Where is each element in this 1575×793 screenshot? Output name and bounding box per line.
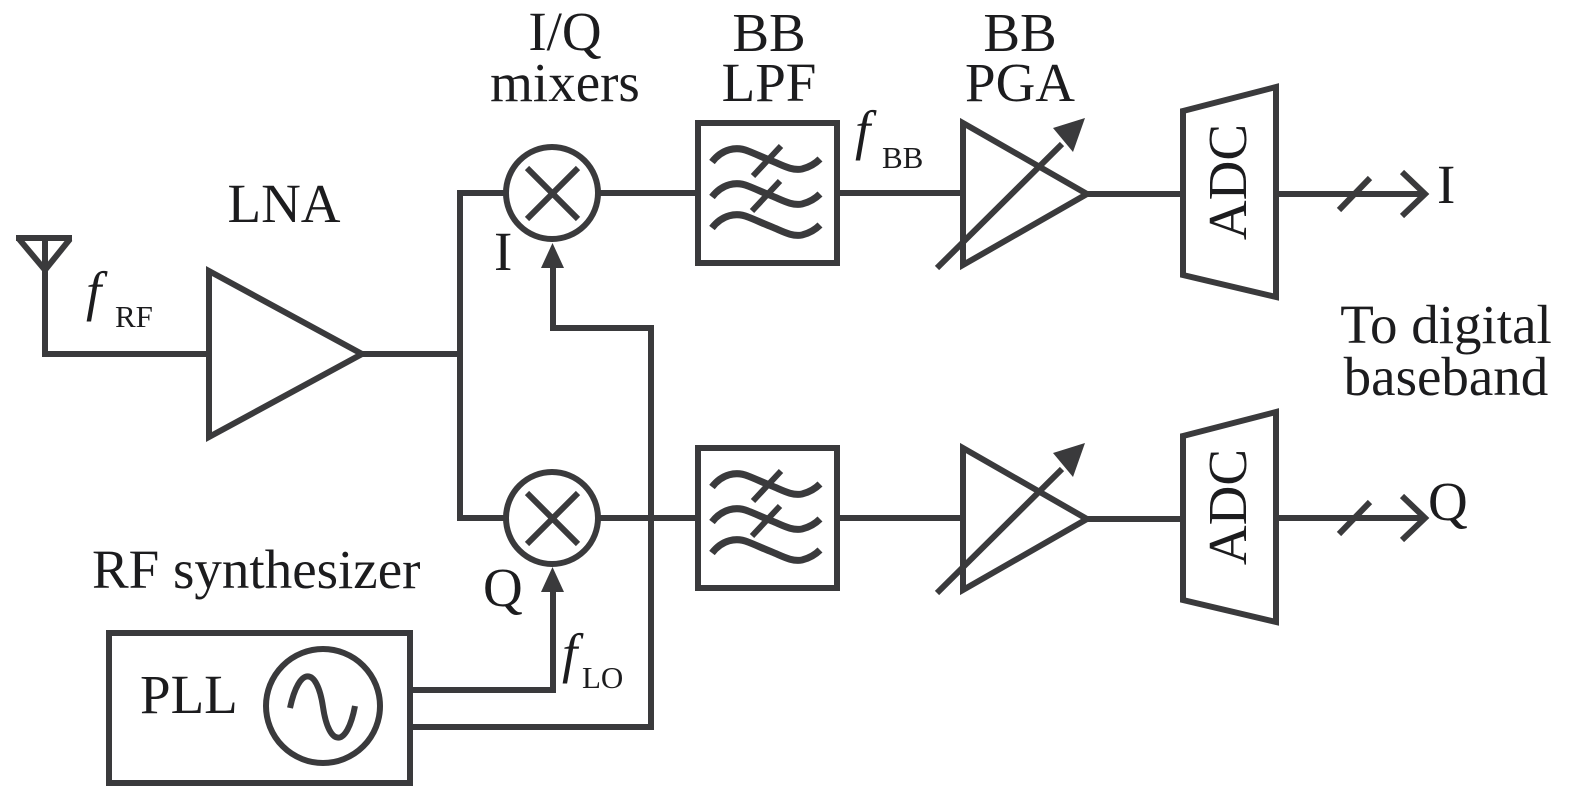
arrowhead Q output — [1402, 496, 1425, 540]
svg-text:ADC: ADC — [1197, 449, 1258, 565]
amplifier BB PGA I — [937, 118, 1087, 268]
wire LPF to PGA (I) — [837, 190, 962, 196]
amplifier LNA — [209, 271, 362, 437]
svg-text:I: I — [1437, 154, 1455, 215]
svg-text:I: I — [494, 221, 512, 282]
wire ADC I to output — [1276, 191, 1424, 197]
label I output — [1437, 154, 1455, 215]
arrowhead LO into I mixer — [541, 243, 564, 268]
svg-text:f: f — [86, 261, 108, 322]
svg-text:f: f — [855, 100, 877, 161]
mixer Q — [506, 472, 598, 564]
label BB LPF — [722, 2, 817, 113]
label I/Q mixers — [490, 1, 640, 113]
label RF synthesizer — [92, 539, 420, 600]
wire LPF to PGA (Q) — [837, 515, 962, 521]
svg-text:f: f — [562, 623, 584, 684]
wire PGA to ADC (I) — [1087, 191, 1183, 197]
svg-text:Q: Q — [1428, 471, 1468, 532]
wire branch to I mixer — [457, 190, 506, 196]
arrowhead I output — [1402, 172, 1425, 216]
PLL box — [109, 633, 410, 783]
label To digital baseband — [1340, 294, 1552, 407]
label fBB — [855, 100, 923, 175]
wire LNA output to branch node — [362, 351, 460, 357]
mixer I — [506, 147, 598, 239]
label BB PGA — [965, 2, 1075, 113]
svg-text:ADC: ADC — [1197, 124, 1258, 240]
bus slash I — [1339, 178, 1370, 210]
label Q (mixer) — [483, 557, 523, 618]
filter BB LPF Q — [698, 448, 837, 588]
ADC Q — [1183, 412, 1276, 622]
wire Q mixer to LPF — [598, 515, 698, 521]
label I (mixer) — [494, 221, 512, 282]
svg-text:RF: RF — [115, 299, 153, 334]
ADC I — [1183, 87, 1276, 297]
wire branch vertical — [457, 190, 463, 521]
label PLL — [140, 664, 238, 725]
svg-text:PGA: PGA — [965, 52, 1075, 113]
wire I mixer to LPF — [598, 190, 698, 196]
wire ADC Q to output — [1276, 515, 1424, 521]
antenna — [16, 238, 209, 354]
bus slash Q — [1339, 502, 1370, 534]
svg-text:BB: BB — [882, 140, 923, 175]
svg-text:RF synthesizer: RF synthesizer — [92, 539, 420, 600]
label fRF — [86, 261, 153, 334]
svg-text:mixers: mixers — [490, 52, 640, 113]
wire PLL upper output to Q mixer — [410, 590, 553, 690]
wire PLL lower output to I mixer — [410, 266, 651, 727]
label LNA — [227, 173, 340, 234]
label fLO — [562, 623, 623, 695]
svg-text:LPF: LPF — [722, 52, 817, 113]
svg-text:PLL: PLL — [140, 664, 238, 725]
amplifier BB PGA Q — [937, 443, 1087, 593]
arrowhead LO into Q mixer — [541, 567, 564, 592]
wire branch to Q mixer — [457, 515, 506, 521]
svg-text:Q: Q — [483, 557, 523, 618]
filter BB LPF I — [698, 123, 837, 263]
svg-text:LO: LO — [582, 660, 623, 695]
svg-text:LNA: LNA — [227, 173, 340, 234]
oscillator — [266, 649, 380, 763]
svg-text:baseband: baseband — [1344, 346, 1549, 407]
wire PGA to ADC (Q) — [1087, 516, 1183, 522]
label Q output — [1428, 471, 1468, 532]
